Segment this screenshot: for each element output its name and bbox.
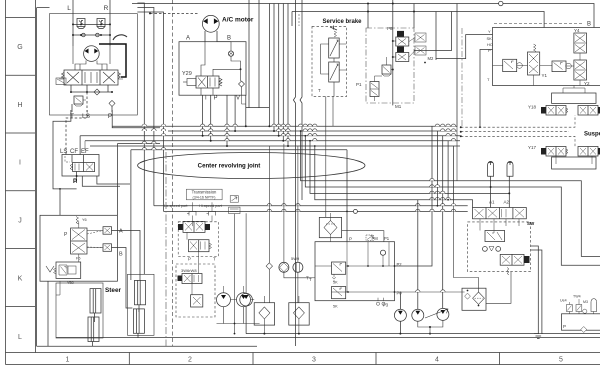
check boxes A B	[103, 227, 112, 235]
W spring left	[54, 268, 57, 274]
junction dots	[72, 23, 111, 36]
cyl enclosure right	[128, 274, 155, 335]
svg-text:Y4: Y4	[574, 28, 580, 33]
ac drops	[202, 95, 204, 136]
svg-text:P8: P8	[387, 26, 393, 31]
svg-text:SK: SK	[487, 36, 493, 41]
bus crossing bumps	[200, 124, 455, 141]
wire A to right cylinders	[112, 231, 141, 281]
upper mid verticals	[249, 0, 288, 146]
wires below steer box	[56, 281, 60, 295]
check diamond small	[465, 293, 471, 299]
relief valve	[74, 96, 83, 104]
wires down	[200, 88, 202, 95]
svg-text:B: B	[119, 252, 123, 258]
port stubs	[569, 312, 571, 314]
row labels	[17, 44, 22, 341]
shift valve solenoids	[178, 221, 210, 232]
solenoid valve inside	[178, 276, 183, 282]
P0 line to filter	[395, 291, 465, 293]
svg-text:PM: PM	[372, 236, 379, 241]
svg-text:T: T	[318, 88, 321, 93]
wire T down	[71, 104, 73, 112]
svg-text:T: T	[204, 96, 208, 102]
svg-text:P: P	[108, 113, 112, 120]
crossing bumps on buses	[142, 124, 166, 136]
bridge rect lower	[552, 157, 596, 169]
check diamond 2	[109, 100, 115, 106]
svg-text:Lo-speed port: Lo-speed port	[164, 204, 188, 208]
svg-text:M3: M3	[583, 300, 588, 304]
svg-text:4: 4	[435, 357, 439, 364]
shock valve 1	[77, 19, 85, 29]
accumulator 2	[507, 161, 513, 176]
svg-text:P: P	[488, 48, 491, 53]
svg-text:5K: 5K	[333, 305, 338, 309]
A/C V line down	[242, 95, 246, 104]
svg-text:L: L	[18, 334, 22, 341]
wire from axle pilot	[486, 272, 511, 304]
P3 ports below	[376, 302, 379, 305]
shut-off valve 2	[576, 305, 582, 312]
junction dot	[240, 68, 242, 70]
pump wires	[224, 286, 244, 293]
tandem pump	[217, 293, 231, 307]
dash-dot box	[366, 28, 414, 103]
variable arrow	[425, 309, 448, 319]
bus P line	[112, 125, 457, 127]
verticals right of brake	[367, 4, 369, 29]
cluster verticals continue	[395, 181, 433, 266]
compensator 2	[332, 287, 346, 299]
wire from bundle	[454, 206, 479, 292]
long verticals through ellipse	[137, 3, 144, 274]
internal wires	[79, 222, 103, 263]
svg-text:3: 3	[312, 357, 316, 364]
shock valve 2	[97, 19, 105, 29]
wire T return	[53, 110, 77, 189]
wire P supply	[112, 110, 160, 128]
valve Y1	[534, 44, 537, 52]
valve Y18b	[578, 106, 598, 116]
svg-text:Y29: Y29	[182, 71, 192, 77]
internal wires	[315, 242, 395, 292]
steer cylinder RR	[133, 309, 144, 338]
svg-text:H: H	[17, 102, 22, 109]
internal wires	[201, 42, 205, 76]
branch to P port	[346, 150, 348, 242]
internal wires	[493, 65, 574, 68]
wire EF down	[97, 176, 130, 184]
filter box 1	[254, 303, 274, 325]
svg-text:Service brake: Service brake	[322, 19, 362, 25]
brake return down to filter	[325, 96, 327, 217]
spring top	[76, 217, 79, 225]
valve Y17b	[578, 147, 598, 157]
svg-text:J: J	[18, 218, 22, 225]
valve to rail stubs	[70, 85, 72, 92]
spring top	[334, 31, 337, 37]
svg-text:3W6rW8: 3W6rW8	[181, 268, 197, 273]
block box	[179, 42, 246, 95]
top rail	[73, 23, 110, 25]
ellipse	[138, 153, 365, 179]
spring left	[70, 164, 73, 170]
svg-text:P1: P1	[384, 236, 390, 241]
main line M1	[392, 0, 394, 105]
bottom band	[6, 353, 600, 365]
suction line	[246, 333, 539, 335]
relief group	[56, 262, 81, 278]
svg-text:T: T	[487, 77, 490, 82]
drain symbol	[534, 334, 543, 339]
accumulator small	[591, 299, 597, 312]
svg-text:P: P	[64, 232, 68, 238]
check valves	[483, 247, 488, 252]
svg-text:A: A	[186, 36, 190, 42]
dashed pilot links	[87, 231, 103, 248]
svg-text:V: V	[236, 96, 240, 102]
svg-text:5K: 5K	[333, 281, 338, 285]
solenoid valve	[500, 254, 524, 265]
directional valve body	[64, 70, 118, 85]
pedal	[330, 26, 337, 31]
steering valve	[71, 228, 87, 254]
wire B	[112, 248, 133, 309]
spring right	[219, 78, 222, 86]
svg-text:P: P	[73, 179, 77, 185]
svg-text:5W9: 5W9	[291, 256, 300, 261]
dashed box	[468, 222, 531, 272]
dash-dot boundary	[165, 152, 167, 346]
dashed B line	[494, 22, 584, 24]
svg-text:Suspensi: Suspensi	[584, 132, 600, 138]
lower bus crossing bumps	[142, 141, 456, 211]
svg-text:Y18: Y18	[528, 105, 537, 110]
brake line to bus	[332, 96, 334, 126]
svg-text:Center revolving joint: Center revolving joint	[198, 162, 261, 169]
solenoid left	[187, 79, 196, 86]
spring left	[59, 73, 64, 80]
wire M port	[436, 35, 493, 59]
lower pair from left	[154, 205, 468, 207]
transmission name box	[186, 189, 222, 200]
valve element	[73, 163, 95, 172]
svg-text:CF: CF	[70, 149, 78, 155]
svg-text:SW: SW	[527, 221, 535, 226]
wire CF down	[82, 176, 120, 186]
bottom rail	[73, 34, 110, 36]
crossing bumps at cluster	[430, 178, 456, 205]
cyl enclosure left	[56, 283, 103, 338]
orifice box	[229, 207, 240, 214]
svg-text:P1: P1	[356, 82, 362, 87]
wire P port	[480, 50, 493, 128]
gauge circle	[380, 250, 385, 255]
steer cylinder LR	[88, 317, 99, 346]
wires below box	[207, 95, 209, 108]
SW wire to tank	[531, 250, 600, 334]
valve Y2	[574, 60, 587, 80]
dashed feed to motor	[150, 12, 198, 14]
svg-text:G: G	[17, 44, 22, 51]
temp sender	[293, 262, 303, 272]
label stubs	[570, 299, 580, 305]
SW wire to drain	[531, 246, 539, 334]
side X boxes	[415, 33, 426, 42]
svg-text:F5: F5	[76, 257, 80, 261]
pilot relief right	[552, 61, 566, 72]
check diamond 1	[94, 89, 100, 95]
tiny port labels	[487, 29, 494, 82]
svg-text:B: B	[587, 22, 591, 28]
gauge circle	[583, 309, 587, 313]
shut-off valve 1	[567, 305, 573, 312]
LS dashed pilot	[65, 156, 70, 162]
torque conv box	[176, 264, 215, 317]
svg-text:Y1: Y1	[542, 73, 548, 78]
svg-text:B: B	[227, 36, 231, 42]
box	[493, 28, 600, 86]
A/C motor	[202, 15, 219, 32]
CF EF stubs	[71, 155, 73, 163]
connecting stubs	[333, 58, 335, 62]
wire P down	[111, 106, 113, 112]
svg-text:A1: A1	[489, 200, 495, 205]
vline 457 down	[456, 127, 458, 181]
tank rect	[562, 314, 600, 330]
svg-text:LS: LS	[82, 113, 91, 120]
bus 2	[168, 130, 457, 132]
check valve circles	[82, 33, 86, 37]
bridge rect upper	[552, 93, 596, 103]
svg-text:HO: HO	[487, 42, 493, 47]
fan group boundary dash-dot	[461, 28, 463, 127]
spring right	[118, 73, 123, 80]
cooler diamond-circle	[279, 262, 289, 272]
square symbol	[191, 295, 203, 307]
wires from swing T/LS/P to priority area	[53, 110, 160, 215]
brake feed lines with jogs	[293, 0, 302, 346]
filter diamond	[324, 221, 337, 235]
compensator 1	[332, 262, 346, 274]
svg-text:Ue4: Ue4	[560, 299, 567, 303]
swing motor	[84, 46, 100, 62]
dashed pilot lines	[461, 115, 575, 127]
wire front brake	[293, 0, 295, 346]
junction dots	[202, 125, 289, 147]
svg-text:2: 2	[188, 357, 192, 364]
R box above	[366, 235, 374, 240]
wire LS dashed	[66, 110, 87, 155]
bus corner x117	[118, 144, 161, 216]
internal wires	[187, 232, 199, 294]
labels	[560, 295, 588, 305]
wires	[268, 269, 270, 302]
check diamond below tank	[581, 327, 587, 333]
wire R down	[109, 0, 111, 46]
svg-text:Y: Y	[488, 29, 491, 34]
steer cylinder RF	[135, 280, 146, 312]
svg-text:Y2: Y2	[584, 81, 590, 86]
svg-text:Steer: Steer	[105, 287, 121, 294]
wire rear brake	[300, 0, 302, 200]
bus 3	[80, 135, 460, 137]
wire top2 left corner	[291, 12, 293, 27]
svg-text:P0: P0	[397, 291, 403, 296]
accumulator 1	[488, 161, 494, 176]
bus 4 left drop	[84, 141, 86, 150]
internal wires	[391, 41, 396, 70]
frame left strip	[6, 0, 36, 365]
svg-text:Transmission: Transmission	[192, 190, 217, 195]
pilot relief left	[503, 59, 517, 71]
check diamond	[239, 81, 245, 87]
R box	[230, 196, 238, 203]
dashed boundary	[298, 14, 300, 26]
bus 4	[85, 140, 460, 142]
svg-text:Y17: Y17	[528, 145, 537, 150]
thick case line	[99, 44, 126, 77]
lower rail	[71, 91, 112, 93]
valve arrows	[67, 72, 79, 83]
svg-text:P: P	[188, 257, 191, 262]
spring below	[507, 267, 509, 275]
outer box	[40, 215, 117, 281]
svg-text:Y6: Y6	[82, 218, 87, 222]
svg-text:TW4: TW4	[573, 295, 581, 299]
wire LS dashed down	[86, 92, 88, 112]
top filter box	[319, 217, 341, 237]
check circle on top1	[499, 1, 503, 5]
svg-text:1: 1	[66, 357, 70, 364]
check circle	[228, 51, 233, 56]
svg-text:P: P	[214, 96, 218, 102]
svg-text:A2: A2	[504, 200, 510, 205]
main pump 3	[437, 308, 449, 320]
svg-text:R: R	[104, 5, 109, 12]
check diamond left	[266, 263, 272, 270]
bus corner x131	[131, 150, 347, 280]
orifice drop line	[234, 214, 236, 324]
nested corner wires	[301, 131, 600, 256]
motor port plate	[75, 61, 107, 71]
svg-text:A: A	[119, 229, 123, 235]
svg-text:5: 5	[559, 357, 563, 364]
solenoid valve stack Y30	[397, 31, 404, 37]
junction dots on bus	[367, 3, 415, 13]
svg-text:P: P	[563, 324, 566, 329]
valve lower	[329, 62, 340, 82]
enclosure box	[50, 14, 138, 115]
quick couplings	[193, 202, 213, 211]
wire steer supply	[59, 189, 61, 215]
P port down	[76, 172, 78, 184]
svg-text:P2: P2	[397, 262, 403, 267]
box	[315, 242, 395, 301]
group boundary dashed vline	[171, 0, 173, 346]
side ports	[321, 44, 329, 74]
vertical cluster mid-right going down	[432, 126, 454, 206]
pilot box left	[56, 78, 66, 85]
pilot valve	[485, 231, 505, 242]
svg-text:(3/4-16 NPTF): (3/4-16 NPTF)	[193, 195, 216, 199]
svg-text:K: K	[18, 276, 23, 283]
valve upper	[329, 38, 340, 58]
svg-text:T: T	[213, 257, 216, 262]
svg-text:M2: M2	[428, 56, 434, 61]
valve assembly	[473, 208, 527, 219]
bus 5	[90, 145, 460, 147]
body box	[62, 155, 99, 177]
svg-text:Hi-speed port: Hi-speed port	[199, 204, 223, 208]
internal wires	[480, 219, 519, 231]
motor ports	[204, 31, 206, 42]
filter diamond	[473, 292, 485, 304]
dashed box	[312, 26, 347, 96]
main pump 2	[412, 309, 424, 321]
svg-text:M1: M1	[395, 104, 402, 109]
bus 3 left drop	[79, 136, 81, 155]
check circle	[353, 209, 357, 213]
lower valve	[189, 240, 210, 252]
filter box 2	[289, 303, 309, 325]
wire L down	[72, 0, 74, 46]
svg-text:P: P	[349, 237, 352, 242]
svg-text:L: L	[67, 5, 71, 12]
wire top2	[292, 12, 544, 28]
dashed box shift valves	[178, 222, 218, 257]
left gear pump	[240, 293, 253, 306]
wire top1	[132, 4, 594, 28]
relief small	[382, 65, 391, 74]
P1 feed from filter	[342, 231, 384, 242]
svg-text:I: I	[19, 160, 21, 167]
motor loop left	[73, 46, 110, 64]
rotation arrow	[113, 35, 127, 40]
column labels	[66, 357, 564, 364]
main pump 1	[394, 309, 406, 321]
steer cylinder LF	[90, 289, 101, 322]
wire joining A/C	[246, 107, 269, 109]
